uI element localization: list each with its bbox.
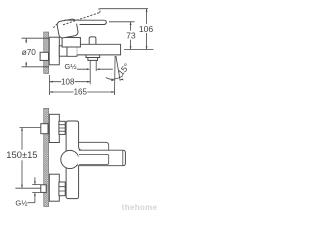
- handle bar outer: [78, 150, 126, 166]
- dimension 73: [130, 22, 132, 50]
- angle arc: [106, 76, 123, 79]
- union nut (upper): [59, 46, 67, 56]
- dim 150+-15 extension line 1: [20, 127, 41, 129]
- small dia dim (lower G1/2): [32, 185, 40, 193]
- cartridge collar: [62, 38, 80, 48]
- raised dome edge (dashed): [53, 23, 57, 28]
- wall face extension line: [49, 75, 51, 95]
- svg-text:15°: 15°: [116, 61, 132, 77]
- escutcheon 1 (lower): [49, 114, 59, 142]
- svg-text:150±15: 150±15: [6, 149, 37, 160]
- svg-text:G½: G½: [65, 62, 78, 71]
- supply stub: [40, 52, 48, 60]
- raised lever tip (dashed): [98, 9, 100, 13]
- extension line lever-top level: [109, 21, 135, 23]
- dimension 106: [146, 9, 148, 50]
- svg-text:ø70: ø70: [22, 48, 37, 57]
- svg-text:106: 106: [139, 24, 154, 34]
- angle reference vertical: [114, 56, 117, 95]
- G1/2 arrows: [77, 68, 113, 70]
- escutcheon 2 (lower): [49, 174, 59, 201]
- svg-text:73: 73: [126, 30, 136, 40]
- union stack 1: [59, 121, 65, 134]
- union stack 2: [59, 182, 65, 196]
- dim o70 line + arrows: [25, 39, 27, 67]
- dim o70 extension top: [22, 37, 49, 39]
- extension line raised-tip level: [100, 8, 149, 10]
- svg-text:108: 108: [61, 77, 75, 86]
- svg-text:G½: G½: [15, 198, 28, 207]
- handle inner panel: [79, 154, 109, 164]
- body column: [66, 121, 82, 199]
- dim o70 extension bottom: [22, 66, 49, 68]
- wall hatch (lower): [44, 108, 49, 206]
- nut 1: [41, 124, 48, 134]
- body section line: [76, 47, 78, 55]
- nut 2: [41, 185, 46, 193]
- lever (solid): [64, 20, 106, 24]
- dimension 108: [50, 81, 91, 83]
- dim 150+-15 extension line 2: [15, 187, 40, 189]
- handle bar end inner line: [122, 150, 124, 165]
- diverter knob: [89, 37, 96, 45]
- svg-text:thehome: thehome: [122, 203, 158, 212]
- dimension 165: [50, 91, 115, 93]
- angle slant line: [116, 56, 120, 81]
- extension line body-top level: [124, 48, 154, 50]
- spout flange: [86, 55, 100, 61]
- handle dome circle: [61, 150, 79, 168]
- raised lever (dashed): [63, 13, 100, 25]
- spout (rotated view outline): [79, 142, 109, 150]
- spout tube: [90, 60, 96, 84]
- handle dome: [57, 19, 79, 39]
- svg-text:165: 165: [74, 88, 88, 97]
- dim 150+-15 line: [21, 128, 23, 188]
- wall hatch (upper): [44, 32, 49, 74]
- body (upper): [67, 44, 121, 56]
- escutcheon (upper): [49, 37, 59, 65]
